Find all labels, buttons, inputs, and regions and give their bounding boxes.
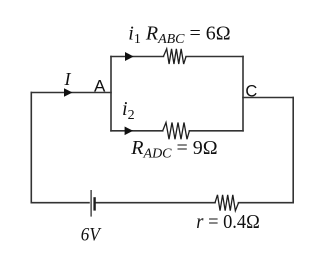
svg-text:6V: 6V [81,226,102,246]
svg-text:RADC = 9Ω: RADC = 9Ω [130,137,217,162]
svg-text:r = 0.4Ω: r = 0.4Ω [196,211,260,233]
svg-text:I: I [64,69,72,89]
svg-text:A: A [94,76,106,95]
svg-text:C: C [245,82,257,100]
